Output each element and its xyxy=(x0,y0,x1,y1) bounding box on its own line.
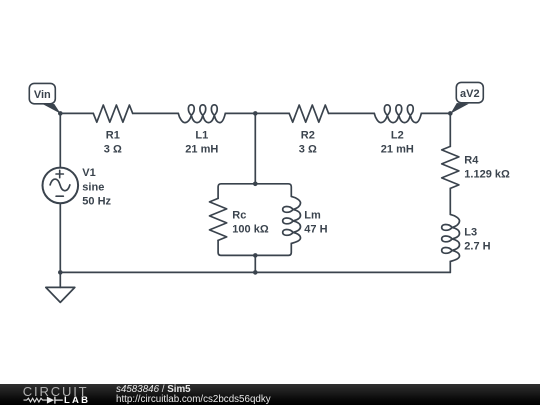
node label box Vin xyxy=(29,83,55,103)
CircuitLab logo xyxy=(0,384,110,405)
svg-text:Rc: Rc xyxy=(232,209,246,221)
resistor R1 xyxy=(93,105,132,122)
wedge pointer Vin xyxy=(42,104,61,114)
node mid junction dot xyxy=(253,111,258,116)
junction dot bottom left xyxy=(58,270,63,275)
resistor Rc xyxy=(210,198,227,240)
source V1 circle xyxy=(43,168,79,204)
wedge pointer aV2 xyxy=(451,103,469,114)
node label box aV2 xyxy=(456,82,483,102)
logo diode symbol xyxy=(47,397,54,404)
wire R4 to L3 xyxy=(449,188,451,214)
wire ground lead xyxy=(59,272,61,287)
wire aV2 branch: node down to R4 xyxy=(449,113,451,146)
node Vin junction dot xyxy=(58,111,63,116)
svg-text:aV2: aV2 xyxy=(460,88,480,100)
wire parallel loop rectangle bottom xyxy=(218,240,291,255)
svg-text:LAB: LAB xyxy=(64,395,90,405)
svg-text:2.7 H: 2.7 H xyxy=(464,240,490,252)
wire middle branch bottom xyxy=(254,255,256,272)
svg-text:21 mH: 21 mH xyxy=(381,143,414,155)
wire top: Vin node to R1 xyxy=(60,112,93,114)
svg-text:R1: R1 xyxy=(106,129,120,141)
wire L1 to R2 through middle node xyxy=(225,112,289,114)
svg-text:47 H: 47 H xyxy=(304,223,327,235)
svg-text:V1: V1 xyxy=(82,167,95,179)
wire parallel loop rectangle top/sides xyxy=(218,184,291,199)
svg-text:sine: sine xyxy=(82,181,104,193)
junction dot parallel top xyxy=(253,181,258,186)
svg-text:L1: L1 xyxy=(195,129,208,141)
wire R2 to L2 xyxy=(329,112,375,114)
svg-text:21 mH: 21 mH xyxy=(185,143,218,155)
footer text: user / schematic name xyxy=(116,385,271,405)
wire L2 to aV2 node xyxy=(421,112,450,114)
inductor L2 xyxy=(374,105,421,123)
wire V1 bottom lead xyxy=(59,203,61,272)
svg-text:3 Ω: 3 Ω xyxy=(104,143,122,155)
svg-text:R2: R2 xyxy=(301,129,315,141)
V1 plus sign xyxy=(56,170,63,177)
ground xyxy=(46,287,75,302)
svg-text:L2: L2 xyxy=(391,129,404,141)
logo resistor squiggle xyxy=(24,398,47,402)
V1 minus sign xyxy=(56,195,63,197)
svg-text:3 Ω: 3 Ω xyxy=(299,143,317,155)
svg-text:50 Hz: 50 Hz xyxy=(82,195,111,207)
resistor R2 xyxy=(289,105,328,122)
footer bar xyxy=(0,384,540,405)
svg-text:R4: R4 xyxy=(464,155,479,167)
wire V1 top lead xyxy=(59,113,61,167)
svg-text:Vin: Vin xyxy=(34,89,51,101)
svg-text:Lm: Lm xyxy=(304,209,321,221)
wire bottom rail xyxy=(60,271,450,273)
resistor R4 xyxy=(442,146,459,188)
inductor L1 xyxy=(178,105,225,123)
inductor Lm xyxy=(283,196,301,243)
svg-text:100 kΩ: 100 kΩ xyxy=(232,223,269,235)
wire R1 to L1 xyxy=(133,112,179,114)
wire middle branch top xyxy=(254,113,256,183)
wire L3 to bottom rail xyxy=(449,261,451,272)
svg-text:1.129 kΩ: 1.129 kΩ xyxy=(464,169,510,181)
V1 sine wave xyxy=(50,179,70,191)
node aV2 junction dot xyxy=(448,111,453,116)
svg-text:L3: L3 xyxy=(464,226,477,238)
inductor L3 xyxy=(442,214,460,261)
junction dot parallel bottom xyxy=(253,253,258,258)
junction dot bottom mid xyxy=(253,270,258,275)
